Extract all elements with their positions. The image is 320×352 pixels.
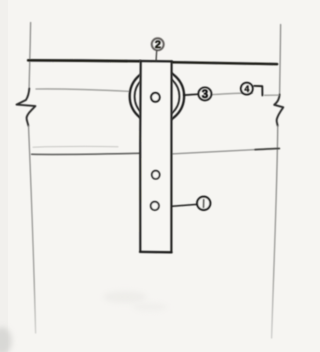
elbow leader of callout 4: [254, 86, 262, 96]
svg-text:3: 3: [202, 89, 208, 101]
track line, right of callout 3 (faint, passes behind circle 4): [212, 93, 279, 95]
roller axle hole: [151, 93, 160, 102]
right break mark: [274, 95, 283, 127]
callout circle 3: [199, 88, 212, 101]
callout circle 2: [152, 38, 164, 50]
roller outer circle: [130, 69, 184, 123]
scan smudge bottom-left corner: [0, 327, 12, 352]
rail bottom edge, left segment: [32, 153, 140, 154]
callout digits: [155, 39, 250, 207]
faint double stroke above left segment: [33, 145, 118, 148]
strap hole lower: [151, 202, 159, 210]
rail top edge, right segment (thick): [172, 62, 277, 64]
strap left edge: [139, 61, 142, 252]
rail top edge, left segment (thick): [28, 59, 140, 63]
roller inner circle: [135, 74, 180, 119]
scan smudge bottom-middle: [103, 291, 147, 303]
digit 1 (thin bar): [203, 200, 205, 208]
left border line upper segment: [29, 23, 31, 89]
strap right edge: [170, 61, 172, 252]
svg-text:4: 4: [244, 84, 249, 94]
left border line lower segment: [29, 126, 36, 333]
left break mark: [17, 89, 36, 127]
svg-text:2: 2: [155, 39, 161, 51]
right border line lower segment: [272, 126, 278, 338]
strap hole upper: [152, 171, 160, 179]
callout circle 4: [241, 83, 253, 95]
leader line callout 1: [172, 204, 197, 206]
callout circle 1: [197, 197, 210, 210]
leader line callout 2: [155, 50, 158, 60]
strap body (covers roller middle and lines): [140, 60, 173, 252]
right border line upper segment: [280, 25, 281, 95]
rail bottom edge, right segment: [172, 150, 255, 154]
track line, left of roller (faint): [36, 89, 130, 91]
strap top edge: [140, 60, 172, 63]
strap bottom edge: [140, 251, 172, 254]
leader line callout 3: [184, 93, 198, 96]
